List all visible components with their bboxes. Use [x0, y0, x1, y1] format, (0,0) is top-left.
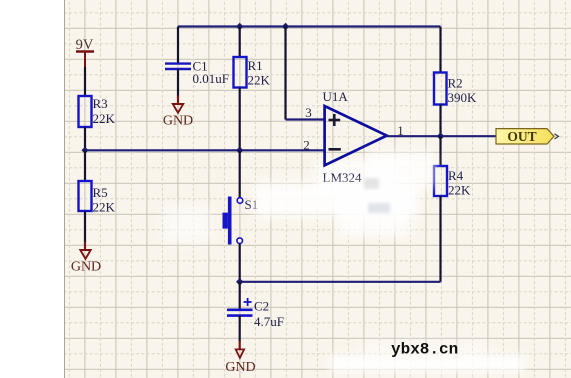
resistor R5 [79, 181, 92, 211]
wire top rail [178, 25, 441, 27]
svg-text:22K: 22K [93, 111, 116, 126]
wire junction to S1 [239, 150, 241, 198]
capacitor C1 [165, 64, 191, 69]
svg-text:22K: 22K [448, 183, 471, 198]
svg-text:R2: R2 [448, 76, 463, 91]
svg-text:C2: C2 [254, 299, 269, 314]
wire R3 to node A [84, 127, 86, 150]
op-amp U1A [325, 106, 387, 165]
svg-text:OUT: OUT [507, 129, 536, 144]
port OUT flag [496, 129, 554, 144]
node junction top rail / R1 [236, 23, 243, 30]
wire node to C2 [239, 282, 241, 309]
node junction output [437, 132, 445, 140]
svg-text:U1A: U1A [323, 89, 349, 104]
resistor R1 [234, 57, 247, 88]
node junction rail / switch [236, 147, 243, 154]
wire top rail to C1 [177, 27, 179, 63]
svg-text:3: 3 [305, 105, 312, 120]
svg-text:GND: GND [71, 260, 101, 275]
port OUT arrow tick [555, 134, 559, 139]
svg-text:390K: 390K [448, 90, 478, 105]
svg-text:R3: R3 [93, 96, 108, 111]
wire C1 to ground [177, 70, 179, 97]
wire output [387, 135, 496, 137]
resistor R4 [434, 166, 447, 196]
svg-text:ybx8.cn: ybx8.cn [391, 341, 458, 359]
wire top rail corner to R2 [439, 27, 441, 73]
ground symbol (C1) [173, 96, 183, 113]
node junction bottom [236, 278, 243, 286]
svg-text:GND: GND [163, 114, 193, 129]
polarized capacitor C2 with plus mark [227, 298, 253, 316]
pushbutton switch S1 [223, 197, 243, 245]
wire inverting input rail [85, 149, 325, 151]
svg-text:GND: GND [225, 360, 255, 375]
node A junction [81, 147, 88, 154]
wire 9V to R3 [84, 67, 86, 96]
wire R2 to output node [439, 105, 441, 137]
ground symbol (bottom) [236, 341, 244, 358]
wire R4 down [439, 196, 441, 282]
wire output node to R4 [439, 136, 441, 166]
svg-text:R4: R4 [448, 168, 464, 183]
watermark white patch behind LM324 [316, 160, 400, 198]
wire to pin 3 [286, 27, 326, 120]
node junction top rail / op-amp input [282, 23, 289, 30]
svg-text:LM324: LM324 [323, 170, 363, 185]
wire R5 to ground [84, 211, 86, 242]
svg-text:22K: 22K [93, 200, 116, 215]
wire R1 to rail junction [239, 88, 241, 151]
svg-text:R5: R5 [93, 185, 108, 200]
wire C2 to ground [239, 316, 241, 342]
svg-text:R1: R1 [248, 58, 263, 73]
svg-text:2: 2 [303, 138, 310, 153]
svg-text:4.7uF: 4.7uF [254, 314, 284, 329]
watermark white patches [165, 152, 525, 372]
svg-text:22K: 22K [248, 73, 271, 88]
wire feedback bottom [240, 281, 441, 283]
wire top rail to R1 [239, 27, 241, 58]
wire S1 to bottom node [239, 244, 241, 282]
wire node A to R5 [84, 150, 86, 181]
power +9V bar symbol [76, 52, 94, 68]
resistor R2 [434, 73, 447, 105]
svg-text:0.01uF: 0.01uF [193, 71, 229, 86]
ground symbol (left) [80, 242, 90, 259]
resistor R3 [79, 96, 92, 127]
